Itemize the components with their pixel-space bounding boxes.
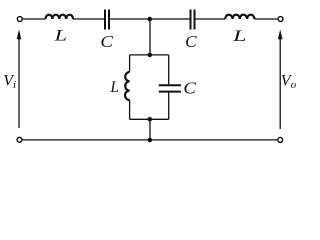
wire tank left upper segment bbox=[129, 55, 131, 72]
capacitor C1 bbox=[105, 10, 109, 30]
terminal bottom-left bbox=[17, 137, 22, 142]
wire tank left lower segment bbox=[129, 100, 131, 119]
wire bottom rail bbox=[23, 139, 278, 141]
terminal top-right bbox=[278, 17, 283, 22]
wire top rail: terminal to L1 bbox=[23, 18, 46, 20]
node junction dot on top rail bbox=[148, 17, 153, 22]
node junction dot tank bottom bbox=[148, 117, 153, 122]
inductor L3 (tank, vertical) bbox=[125, 72, 130, 100]
wire tank bottom edge bbox=[130, 118, 169, 120]
svg-text:L: L bbox=[232, 28, 247, 45]
wire tank bottom to bottom rail bbox=[149, 119, 151, 140]
wire L1 to C1 bbox=[73, 18, 104, 20]
arrow Vi (line) bbox=[18, 39, 20, 129]
svg-text:L: L bbox=[53, 28, 67, 45]
wire C1 to C2 through node bbox=[110, 18, 190, 20]
arrow Vi (head) bbox=[17, 29, 22, 39]
svg-text:Vo: Vo bbox=[281, 73, 297, 92]
svg-text:L: L bbox=[109, 79, 119, 96]
node junction dot bottom rail bbox=[148, 138, 153, 143]
wire node down to tank top bbox=[149, 19, 151, 55]
svg-text:C: C bbox=[100, 32, 113, 51]
svg-text:Vi: Vi bbox=[3, 73, 16, 92]
wire C2 to L2 bbox=[196, 18, 226, 20]
arrow Vo (head) bbox=[278, 29, 283, 39]
wire tank right upper segment bbox=[168, 55, 170, 85]
arrow Vo (line) bbox=[279, 39, 281, 130]
wire L2 to terminal top-right bbox=[254, 18, 277, 20]
node junction dot tank top bbox=[148, 53, 153, 58]
svg-text:C: C bbox=[185, 32, 197, 51]
svg-text:C: C bbox=[183, 78, 196, 97]
capacitor C2 bbox=[191, 10, 195, 30]
wire tank top edge bbox=[130, 54, 169, 56]
terminal bottom-right bbox=[278, 137, 283, 142]
terminal top-left bbox=[17, 17, 22, 22]
inductor L2 bbox=[225, 15, 254, 19]
capacitor C3 (tank, horizontal plates) bbox=[159, 85, 181, 91]
inductor L1 bbox=[46, 15, 74, 19]
wire tank right lower segment bbox=[168, 93, 170, 120]
